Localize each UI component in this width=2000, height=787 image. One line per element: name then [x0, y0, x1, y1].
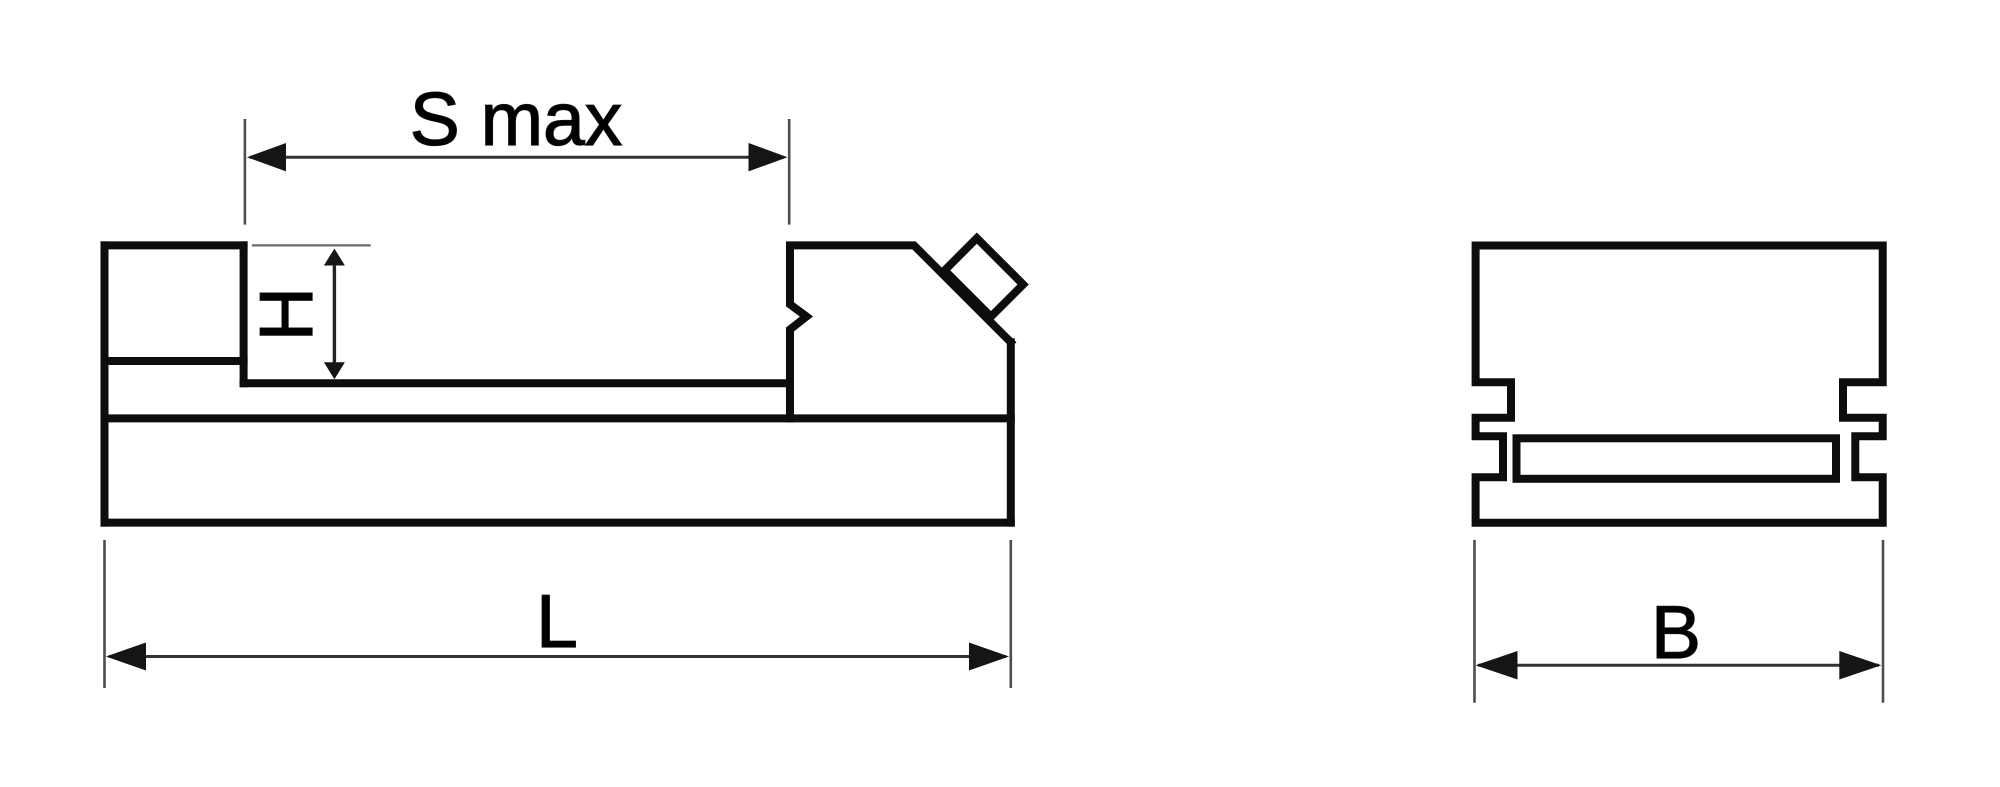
bed sliding surface — [244, 379, 790, 387]
arrowhead B right — [1839, 651, 1881, 680]
body left edge — [101, 245, 109, 522]
svg-text:B: B — [1651, 590, 1701, 674]
extension line left of S max — [244, 119, 247, 225]
dimension line B — [1478, 664, 1879, 667]
extension line right of L — [1009, 540, 1012, 688]
arrowhead B left — [1476, 651, 1518, 680]
fixed jaw right edge — [240, 245, 248, 383]
extension line left of L — [103, 540, 106, 688]
base right edge — [1007, 342, 1015, 522]
end view guide rail — [1517, 438, 1837, 479]
extension line right of S max — [788, 119, 791, 225]
end view body outline — [1476, 246, 1883, 523]
fixed jaw step line — [105, 357, 244, 365]
arrowhead L left — [106, 643, 146, 671]
arrowhead H down — [324, 362, 345, 379]
arrowhead S max left — [247, 143, 286, 171]
base top line — [105, 414, 1011, 422]
arrowhead S max right — [749, 143, 788, 171]
dimension line H — [333, 253, 336, 375]
base bottom edge — [105, 519, 1011, 527]
svg-text:H: H — [244, 287, 328, 341]
arrowhead H up — [324, 249, 345, 266]
screw end block (rotated square) — [945, 238, 1023, 316]
extension line left of B — [1473, 540, 1476, 703]
extension line top of H — [252, 244, 371, 246]
dimension line L — [109, 655, 1006, 658]
fixed jaw top edge — [105, 241, 244, 249]
svg-text:L: L — [536, 579, 578, 663]
dimension line S max — [250, 156, 784, 159]
extension line right of B — [1882, 540, 1885, 703]
arrowhead L right — [969, 643, 1009, 671]
svg-text:S max: S max — [410, 77, 623, 161]
movable jaw outline — [790, 245, 1011, 418]
